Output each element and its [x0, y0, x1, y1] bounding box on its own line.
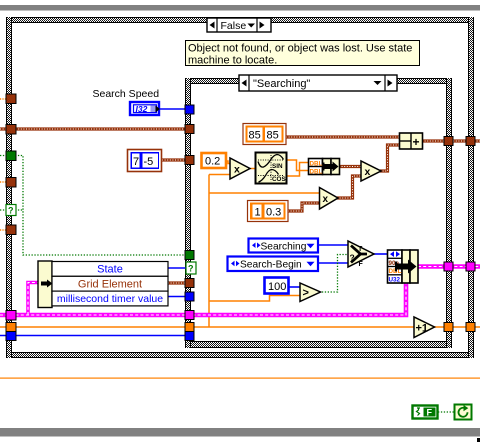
svg-text:DBL: DBL	[310, 168, 323, 175]
svg-text:Object not found, or object wa: Object not found, or object was lost. Us…	[188, 43, 412, 55]
svg-text:U32: U32	[389, 277, 401, 284]
svg-text:?: ?	[350, 253, 355, 263]
svg-text:Searching: Searching	[261, 241, 307, 252]
svg-text:F: F	[427, 408, 433, 418]
svg-text:False: False	[221, 20, 247, 32]
svg-text:T: T	[358, 246, 363, 253]
svg-text:?: ?	[8, 206, 14, 216]
svg-text:+: +	[413, 135, 420, 149]
svg-text:1: 1	[255, 206, 261, 218]
svg-text:millisecond timer value: millisecond timer value	[57, 293, 163, 305]
svg-text:x: x	[365, 166, 371, 178]
svg-text:+1: +1	[416, 323, 429, 335]
svg-text:SIN: SIN	[272, 163, 283, 170]
svg-text:-5: -5	[144, 156, 154, 168]
svg-text:?: ?	[188, 264, 194, 274]
svg-text:State: State	[97, 264, 123, 276]
svg-text:x: x	[323, 194, 329, 205]
svg-text:85: 85	[249, 129, 261, 141]
svg-text:COS: COS	[272, 176, 286, 183]
svg-text:x: x	[234, 164, 240, 176]
svg-text:85: 85	[267, 129, 279, 141]
svg-text:Grid Element: Grid Element	[78, 279, 142, 291]
svg-text:0.2: 0.2	[205, 156, 220, 168]
svg-text:>: >	[303, 287, 309, 299]
svg-text:Search-Begin: Search-Begin	[240, 260, 302, 271]
svg-text:100: 100	[268, 281, 286, 293]
svg-text:machine to locate.: machine to locate.	[188, 55, 277, 67]
svg-text:0.3: 0.3	[266, 206, 281, 218]
svg-text:7: 7	[133, 156, 139, 168]
svg-text:DBL: DBL	[310, 160, 323, 167]
svg-text:I32: I32	[136, 104, 148, 114]
svg-text:F: F	[359, 261, 364, 268]
svg-text:Search Speed: Search Speed	[93, 88, 160, 100]
svg-text:"Searching": "Searching"	[253, 78, 310, 90]
